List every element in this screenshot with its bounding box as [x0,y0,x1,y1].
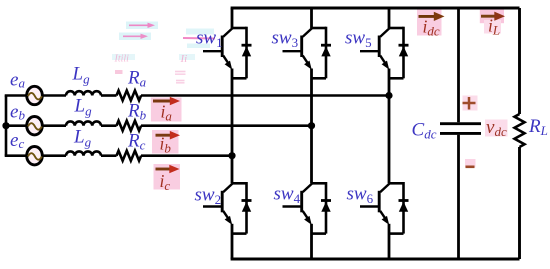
IGBT sw3 emitter arrowhead [304,61,312,70]
IGBT sw5 collector diagonal [380,28,389,37]
wire phase b: source to inductor [43,124,67,127]
IGBT sw6 base lead [360,205,379,207]
arrowhead i_b [170,131,180,140]
leg2 top collector feed [310,8,313,28]
resistor R_L [515,114,525,147]
diode D4 cathode bar [321,199,331,202]
IGBT sw5 base bar [378,36,381,58]
ghost arrow 1 [129,23,155,28]
current arrow i_a [153,100,171,103]
IGBT sw6 top jog [389,182,404,185]
IGBT sw4 bottom jog [312,232,327,235]
svg-text:Ii: Ii [180,53,188,65]
IGBT sw6 emitter arrowhead [382,216,390,225]
IGBT sw3 bottom jog [312,77,327,80]
wire phase a: inductor to resistor [101,94,117,97]
IGBT sw6 emitter diagonal [380,211,385,218]
wire phase a: source to inductor [43,94,67,97]
IGBT sw2 bottom jog [232,232,247,235]
diode D2 cathode bar [242,199,252,202]
node phase c leg1 [228,152,235,159]
leg1 bottom wire [231,224,234,259]
load branch bottom lead [518,147,521,259]
IGBT sw2 emitter diagonal [223,211,228,218]
diode D1 branch [245,27,248,79]
IGBT sw4 base bar [300,191,303,213]
diode D3 triangle [321,46,330,56]
minus sign [466,166,475,169]
arrowhead i_c [169,165,179,174]
IGBT sw1 top jog [232,27,247,30]
inductor Lg phase b [66,121,101,125]
IGBT sw5 emitter arrowhead [382,61,390,70]
ghost cyan box 1 [126,22,158,30]
IGBT sw1 base bar [221,36,224,58]
highlight box plus [463,96,478,111]
IGBT sw2 top jog [232,182,247,185]
capacitor C_dc bottom plate [440,132,481,135]
ghost cyan box right low [179,54,195,60]
plus sign [463,97,476,110]
highlight box i_dc [417,10,442,36]
sine symbol e_a [28,93,42,100]
diode D6 triangle [399,202,408,212]
diode D3 branch [325,27,328,79]
IGBT sw3 emitter diagonal [303,56,308,63]
leg2 bottom wire [310,224,313,259]
highlight box R_a ghost [115,70,123,74]
IGBT sw1 emitter arrowhead [225,61,233,70]
top dc bus [231,7,520,10]
IGBT sw5 emitter diagonal [380,56,385,63]
highlight box i_L arrow [480,9,504,23]
resistor Ra [117,91,142,101]
arrowhead i_L [494,12,505,21]
arrowhead i_dc [434,12,445,21]
diode D5 triangle [399,46,408,56]
current arrow i_L [481,15,497,18]
wire phase c: source to inductor [43,154,67,157]
resistor Rc [117,151,142,161]
IGBT sw4 emitter arrowhead [304,216,312,225]
current arrow i_dc [419,15,436,18]
IGBT sw2 base lead [203,205,222,207]
sine symbol e_b [28,123,42,129]
IGBT sw4 top jog [312,182,327,185]
IGBT sw1 bottom jog [232,77,247,80]
leg1 mid wire [231,69,234,184]
highlight box i_a [151,98,182,122]
diode D2 branch [245,182,248,234]
inductor Lg phase c [66,151,101,155]
IGBT sw1 emitter diagonal [223,56,228,63]
current arrow i_c [156,168,172,171]
ghost cyan under sw1 [187,44,210,49]
IGBT sw5 top jog [389,27,404,30]
diode D4 branch [325,182,328,234]
IGBT sw5 base lead [360,50,379,52]
leg3 bottom wire [388,224,391,259]
capacitor C_dc top plate [440,122,481,125]
svg-text:Itili: Itili [114,54,130,65]
source e_c interior tint [29,148,41,164]
leg1 top collector feed [231,8,234,28]
IGBT sw1 collector diagonal [223,28,232,37]
capacitor branch top lead [457,8,460,122]
IGBT sw4 collector diagonal [303,184,312,193]
AC source e_c [27,147,43,165]
IGBT sw3 top jog [312,27,327,30]
IGBT sw6 collector diagonal [380,184,389,193]
wire phase b: inductor to resistor [101,124,117,127]
ghost arrow 2 [123,34,148,39]
arrowhead i_a [170,97,180,106]
diode D2 triangle [242,202,251,212]
diode D1 cathode bar [242,44,252,47]
diode D3 cathode bar [321,44,331,47]
IGBT sw4 emitter diagonal [303,211,308,218]
ghost strike over sw1 [183,37,215,40]
node phase b leg2 [308,122,315,129]
diode D5 branch [402,27,405,79]
IGBT sw6 base bar [378,191,381,213]
highlight box v_dc [485,120,508,137]
leg2 mid wire [310,69,313,184]
IGBT sw2 base bar [221,191,224,213]
IGBT sw3 base bar [300,36,303,58]
wire phase c: bus to source [5,154,27,157]
current arrow i_b [156,134,172,137]
bottom dc bus [231,258,520,261]
wire phase c: inductor to resistor [101,154,117,157]
IGBT sw2 collector diagonal [223,184,232,193]
wire phase b to leg2 [141,124,312,127]
ghost cyan box left low [112,54,135,60]
leg3 mid wire [388,69,391,184]
resistor Rb [117,121,142,131]
highlight box i_b [152,130,179,154]
wire phase a: bus to source [5,94,27,97]
AC source e_a [27,86,43,104]
ghost scribble 2 [176,80,185,82]
IGBT sw6 bottom jog [389,232,404,235]
node phase a leg3 [385,92,392,99]
node at e_b neutral [2,122,9,129]
IGBT sw4 base lead [283,205,302,207]
highlight box minus [465,159,476,167]
ghost cyan box 2 [119,33,151,41]
IGBT sw5 bottom jog [389,77,404,80]
IGBT sw3 base lead [283,50,302,52]
AC source e_b [27,117,43,135]
source e_a interior tint [29,88,41,104]
wire phase c to leg1 [141,154,232,157]
IGBT sw2 emitter arrowhead [225,216,233,225]
ghost cyan box above sw1 [186,29,214,35]
IGBT sw3 collector diagonal [303,28,312,37]
left neutral bus wire [5,96,8,156]
highlight box i_L label [484,20,501,34]
diode D4 triangle [321,202,330,212]
diode D5 cathode bar [399,44,409,47]
highlight box i_c [154,164,181,190]
IGBT sw1 base lead [203,50,222,52]
diode D6 branch [402,182,405,234]
ghost scribble 1 [175,71,186,73]
inductor Lg phase a [66,91,101,95]
capacitor branch bottom lead [457,135,460,259]
source e_b interior tint [29,118,41,134]
sine symbol e_c [28,153,42,160]
wire phase a to leg3 [141,94,389,97]
wire phase b: bus to source [5,124,27,127]
diode D6 cathode bar [399,199,409,202]
diode D1 triangle [242,46,251,56]
load branch top lead [518,8,521,114]
leg3 top collector feed [388,8,391,28]
